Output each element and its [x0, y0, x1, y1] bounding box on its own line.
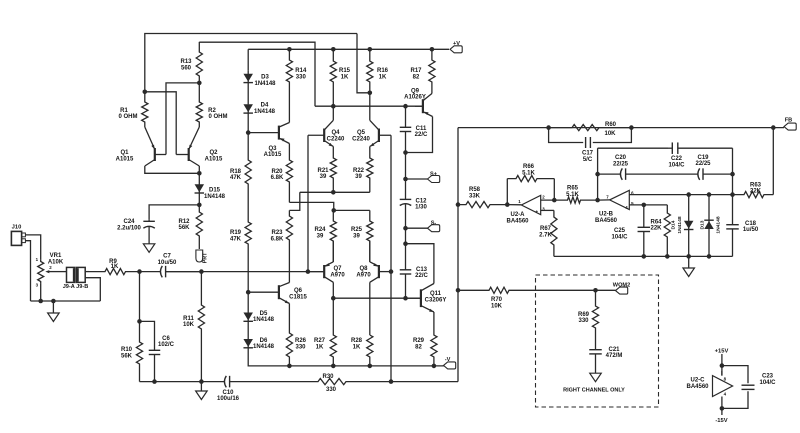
svg-text:C18: C18 [745, 221, 757, 227]
svg-text:C25: C25 [614, 228, 626, 234]
svg-text:R13: R13 [180, 59, 192, 65]
svg-text:A970: A970 [356, 272, 371, 278]
connector J10 [11, 231, 21, 245]
resistor R60 10K [549, 125, 632, 131]
node Q7 base input [306, 269, 311, 274]
svg-text:330: 330 [578, 318, 589, 324]
svg-text:D13: D13 [700, 220, 706, 229]
svg-text:WOM2: WOM2 [613, 283, 630, 289]
svg-text:U2-A: U2-A [510, 212, 525, 218]
connector WOM2 flag [616, 287, 628, 294]
svg-text:33K: 33K [469, 193, 481, 199]
wire U2-B inverting line [629, 194, 732, 196]
resistor R28 1K [367, 335, 373, 366]
svg-text:8: 8 [724, 377, 727, 382]
svg-text:C13: C13 [416, 267, 428, 273]
wire +V rail [248, 48, 449, 50]
svg-text:Q5: Q5 [357, 130, 366, 136]
svg-text:R15: R15 [339, 68, 351, 74]
svg-text:R24: R24 [314, 227, 326, 233]
svg-text:A970: A970 [330, 272, 345, 278]
svg-text:A1015: A1015 [205, 157, 223, 163]
svg-text:C21: C21 [608, 347, 620, 353]
svg-text:39: 39 [317, 234, 324, 240]
svg-text:6.8K: 6.8K [271, 175, 284, 181]
wire VR1 bottom [40, 284, 42, 301]
svg-text:R14: R14 [295, 68, 307, 74]
node +V rail [331, 47, 336, 52]
node R24-R25 [331, 208, 336, 213]
svg-text:S+: S+ [430, 171, 438, 177]
capacitor C13 22/C [405, 244, 407, 270]
potentiometer VR1 A10K [38, 259, 44, 283]
svg-text:10K: 10K [604, 131, 616, 137]
svg-text:22/25: 22/25 [613, 161, 629, 167]
node C25 top [642, 203, 647, 208]
node D13 top [707, 192, 712, 197]
wire [247, 49, 249, 70]
svg-text:+: + [535, 209, 538, 214]
diode D15 1N4148 [198, 173, 200, 205]
wire R66 left leg [506, 179, 508, 205]
svg-text:J10: J10 [12, 224, 22, 230]
svg-text:R69: R69 [578, 312, 590, 318]
node +V rail [430, 47, 435, 52]
svg-text:Q6: Q6 [294, 288, 303, 294]
svg-text:-15V: -15V [715, 418, 727, 424]
node ground [199, 379, 204, 384]
wire Q1 base [166, 83, 199, 155]
node -V rail [287, 364, 292, 369]
node C11 bottom [403, 150, 408, 155]
svg-text:C23: C23 [762, 374, 774, 380]
svg-text:47K: 47K [230, 175, 242, 181]
resistor R67 2.7K [551, 210, 557, 256]
svg-text:R67: R67 [540, 226, 552, 232]
svg-text:R30: R30 [322, 374, 334, 380]
svg-text:1N4148: 1N4148 [253, 317, 275, 323]
capacitor C21 472/M [595, 348, 597, 350]
wire Q5 base to Q8 base to feedback [390, 135, 392, 381]
node feedback [389, 379, 394, 384]
svg-text:R16: R16 [377, 68, 389, 74]
node C6 bottom [152, 379, 157, 384]
svg-text:A1015: A1015 [116, 157, 134, 163]
diode D6 1N4148 [247, 331, 249, 358]
transistor Q6 C1815 [278, 285, 280, 299]
svg-text:10u/50: 10u/50 [158, 260, 177, 266]
node C20 line [595, 172, 600, 177]
svg-text:R25: R25 [351, 227, 363, 233]
connector S- flag [428, 225, 440, 232]
node -V rail [331, 364, 336, 369]
svg-text:22K: 22K [750, 189, 762, 195]
wire to -V rail [248, 358, 289, 366]
svg-text:1: 1 [518, 199, 521, 204]
capacitor C6 102/C [154, 349, 156, 350]
resistor R2 0 OHM [196, 83, 202, 127]
resistor R63 22K [733, 192, 774, 198]
svg-text:R10: R10 [121, 347, 133, 353]
wire lower emitter resistors join [334, 209, 370, 211]
diode D14 1N4148 [688, 195, 690, 257]
capacitor C23 104/C [742, 384, 755, 386]
svg-text:R1: R1 [120, 108, 128, 114]
svg-text:C3206Y: C3206Y [425, 298, 447, 304]
svg-text:C11: C11 [416, 126, 427, 132]
node C19 right [730, 172, 735, 177]
svg-text:D14: D14 [671, 220, 677, 229]
wire J9 shield loop [85, 278, 100, 301]
node D14 top [686, 192, 691, 197]
svg-text:R66: R66 [523, 164, 535, 170]
svg-text:C2240: C2240 [327, 136, 345, 142]
node FB [771, 125, 776, 130]
resistor R25 39 [367, 210, 373, 262]
node +V rail [287, 47, 292, 52]
wire net Q1-emitter rail to Q5 collector [145, 34, 357, 92]
capacitor C24 2.2u/100 [148, 220, 150, 222]
svg-text:C24: C24 [123, 219, 135, 225]
ground below J9 [48, 313, 60, 322]
node R15-Q4 collector VAS line [331, 104, 336, 109]
wire analog ground rail [554, 255, 733, 257]
node to R70 [456, 288, 461, 293]
svg-text:J9-A J9-B: J9-A J9-B [63, 284, 89, 290]
resistor R18 47K [245, 133, 251, 203]
connector -V flag [444, 362, 456, 369]
svg-text:R19: R19 [230, 230, 242, 236]
svg-text:82: 82 [415, 345, 422, 351]
svg-text:1N4148: 1N4148 [254, 81, 276, 87]
svg-text:BA4560: BA4560 [595, 218, 618, 224]
wire to S- [406, 227, 428, 229]
transistor Q3 A1015 [278, 126, 280, 140]
wire Q8 collector to R28 [369, 282, 371, 335]
svg-text:560: 560 [181, 66, 192, 72]
svg-text:+15V: +15V [715, 349, 729, 355]
svg-text:A1026Y: A1026Y [404, 95, 426, 101]
wire Q4 base to Q7 base [307, 135, 309, 271]
node R13 bottom [197, 81, 202, 86]
transistor Q4 C2240 [323, 129, 325, 143]
node ground rail [686, 254, 691, 259]
svg-text:R64: R64 [650, 219, 662, 225]
wire R24 to Q7 emitter [332, 241, 334, 262]
wire [357, 34, 370, 93]
resistor R26 330 [286, 304, 292, 366]
svg-text:R60: R60 [605, 122, 617, 128]
svg-text:R63: R63 [750, 182, 762, 188]
op-amp U2-C BA4560 [713, 376, 733, 397]
svg-text:1u/50: 1u/50 [743, 227, 759, 233]
resistor R70 10K [458, 287, 616, 293]
node to R58 [456, 202, 461, 207]
svg-text:R11: R11 [183, 316, 194, 322]
connector PRT [196, 250, 203, 262]
svg-text:22/C: 22/C [415, 273, 428, 279]
node R11 top [199, 269, 204, 274]
transistor Q1 A1015 [154, 148, 156, 161]
svg-text:1N4148: 1N4148 [716, 216, 722, 233]
label D14 1N4148 rotated [671, 220, 677, 229]
wire [405, 228, 407, 244]
svg-text:1N4148: 1N4148 [677, 216, 683, 233]
svg-text:R58: R58 [469, 187, 481, 193]
svg-text:D3: D3 [261, 75, 269, 81]
svg-text:330: 330 [326, 387, 337, 393]
node R21-R22 [331, 190, 336, 195]
node U2-B output [595, 198, 600, 203]
node R9-C7 [137, 269, 142, 274]
svg-text:47K: 47K [230, 237, 242, 243]
node ground rail [642, 254, 647, 259]
resistor R29 82 [431, 312, 437, 366]
resistor R17 82 [429, 49, 435, 93]
diode D13 1N4148 [708, 195, 710, 257]
svg-text:10K: 10K [183, 322, 195, 328]
wire U2-B output column [597, 148, 599, 200]
node Q7 collector [331, 296, 336, 301]
wire upper emitter node to R23 [289, 192, 299, 210]
svg-text:10K: 10K [491, 303, 503, 309]
svg-text:104/C: 104/C [759, 380, 776, 386]
resistor R10 56K [136, 321, 142, 381]
resistor R66 5.1K [507, 176, 554, 182]
resistor R69 330 [592, 290, 598, 347]
svg-text:C17: C17 [582, 151, 594, 157]
capacitor C20 22/25 [619, 173, 621, 175]
connector FB flag [784, 123, 796, 130]
node -V rail [432, 364, 437, 369]
svg-text:C20: C20 [615, 155, 627, 161]
node to Q6 base [246, 290, 251, 295]
wire to S+ [406, 178, 428, 180]
ground below R11 [196, 391, 208, 400]
wire upper emitter resistors join [300, 191, 370, 193]
node VR1 ground [38, 299, 43, 304]
svg-text:Q7: Q7 [333, 266, 342, 272]
node -15V [720, 406, 725, 411]
svg-text:R20: R20 [271, 169, 283, 175]
node R63 left [730, 192, 735, 197]
dashed box RIGHT CHANNEL ONLY [536, 275, 659, 407]
svg-text:39: 39 [320, 174, 327, 180]
connector J9-B [77, 267, 86, 282]
svg-text:472/M: 472/M [606, 353, 623, 359]
wire Q1/Q2 collector join [145, 166, 200, 173]
wire FB line [458, 127, 784, 129]
wire [200, 382, 202, 391]
wire [139, 272, 141, 322]
svg-text:39: 39 [353, 234, 360, 240]
capacitor C22 104/C [668, 147, 672, 149]
resistor R12 56K [196, 205, 202, 249]
wire to C24 [149, 205, 199, 220]
diode D5 1N4148 [247, 292, 249, 331]
node R60 right [629, 125, 634, 130]
node C13 bottom Q11 base [403, 296, 408, 301]
svg-text:1K: 1K [353, 345, 361, 351]
transistor Q8 A970 [378, 265, 380, 278]
capacitor C12 1/30 [405, 179, 407, 199]
node D15 cathode [197, 203, 202, 208]
resistor R11 10K [198, 272, 204, 382]
resistor R24 39 [330, 210, 336, 262]
svg-text:Q8: Q8 [359, 266, 368, 272]
wire VAS base line [315, 105, 423, 107]
svg-text:Q11: Q11 [430, 291, 442, 297]
svg-text:PRT: PRT [203, 252, 209, 263]
svg-text:C2240: C2240 [352, 136, 370, 142]
resistor R22 39 [367, 147, 373, 193]
label D13 1N4148 rotated [700, 220, 706, 229]
op-amp U2-A BA4560 [521, 195, 540, 214]
connector S+ flag [428, 176, 440, 183]
wire -15V [721, 397, 723, 416]
svg-text:1K: 1K [316, 345, 324, 351]
svg-text:D15: D15 [209, 188, 221, 194]
svg-text:R12: R12 [178, 219, 190, 225]
svg-text:1N4148: 1N4148 [254, 109, 276, 115]
svg-text:0 OHM: 0 OHM [118, 114, 137, 120]
capacitor C7 10u/50 [140, 271, 162, 273]
transistor Q2 A1015 [188, 148, 190, 161]
wire +15V [721, 354, 723, 376]
svg-text:5/C: 5/C [583, 157, 593, 163]
svg-text:5.1K: 5.1K [566, 192, 579, 198]
resistor R9 1K [89, 269, 140, 275]
svg-text:1K: 1K [379, 75, 387, 81]
ground below C24 [143, 244, 155, 253]
svg-text:C6: C6 [162, 336, 170, 342]
wire R63 to FB line [772, 128, 774, 195]
svg-text:3: 3 [36, 282, 39, 287]
node C13 top [403, 241, 408, 246]
diode D3 1N4148 [247, 70, 249, 104]
svg-text:D5: D5 [260, 311, 268, 317]
svg-text:C19: C19 [697, 155, 709, 161]
wire [369, 93, 371, 121]
wire U2-A pin3 [541, 209, 554, 211]
svg-text:S-: S- [431, 221, 437, 227]
svg-text:1: 1 [36, 257, 39, 262]
svg-text:39: 39 [355, 174, 362, 180]
svg-text:7: 7 [606, 194, 609, 199]
resistor R58 33K [458, 202, 507, 208]
resistor R16 1K [367, 49, 373, 93]
svg-text:C1815: C1815 [289, 295, 307, 301]
svg-text:C12: C12 [415, 198, 427, 204]
svg-text:1N4148: 1N4148 [204, 194, 226, 200]
wire R20 to lower emitter node [289, 202, 333, 210]
svg-text:2.7K: 2.7K [539, 232, 552, 238]
connector +V flag [450, 46, 462, 53]
svg-text:2.2u/100: 2.2u/100 [117, 226, 141, 232]
wire [405, 153, 407, 180]
svg-text:RIGHT CHANNEL ONLY: RIGHT CHANNEL ONLY [563, 387, 625, 393]
svg-text:2: 2 [542, 195, 545, 200]
connector J9-A [67, 267, 75, 282]
wire top loop left [598, 147, 668, 149]
op-amp U2-B BA4560 [610, 190, 630, 209]
wire top loop right [700, 147, 733, 149]
svg-text:1/30: 1/30 [415, 205, 427, 211]
node R16-Q5 collector [368, 91, 373, 96]
ground below diode network [683, 268, 695, 277]
wire VAS output line [333, 297, 420, 299]
node R69 top [593, 288, 598, 293]
svg-text:0 OHM: 0 OHM [208, 114, 227, 120]
transistor Q7 A970 [323, 265, 325, 278]
diode D4 1N4148 [247, 104, 249, 132]
svg-text:2: 2 [49, 265, 52, 270]
wire right column [732, 148, 734, 194]
svg-text:FB: FB [785, 117, 792, 123]
resistor R13 560 [196, 42, 202, 83]
wire R66 right leg [553, 179, 555, 201]
capacitor C19 22/25 [672, 173, 698, 175]
svg-text:C22: C22 [671, 156, 683, 162]
node R60 left [546, 125, 551, 130]
svg-text:U2-C: U2-C [690, 378, 705, 384]
transistor Q9 A1026Y [422, 99, 424, 113]
svg-text:100u/16: 100u/16 [217, 396, 240, 402]
resistor R65 5.1K [567, 197, 598, 203]
resistor R1 0 OHM [142, 92, 148, 127]
wire U2-B pin5 line [629, 204, 667, 206]
svg-text:22/25: 22/25 [695, 161, 711, 167]
svg-text:R70: R70 [491, 297, 503, 303]
svg-text:+V: +V [453, 41, 460, 47]
transistor Q5 C2240 [378, 129, 380, 143]
wire R13 to VAS line [199, 42, 315, 106]
node +15V [720, 363, 725, 368]
wire C23 loop [722, 366, 748, 384]
svg-text:R18: R18 [230, 169, 242, 175]
wire to C6 [140, 321, 155, 349]
wire C20-C19 line [598, 173, 619, 175]
wire Q7 collector [332, 282, 334, 298]
svg-text:6.8K: 6.8K [271, 237, 284, 243]
svg-text:R21: R21 [317, 168, 329, 174]
node -V rail [368, 364, 373, 369]
resistor R30 330 [231, 379, 458, 385]
svg-text:104/C: 104/C [611, 235, 628, 241]
svg-text:22/C: 22/C [415, 132, 428, 138]
svg-text:Q2: Q2 [209, 150, 218, 156]
wire [52, 301, 54, 313]
svg-text:R65: R65 [567, 186, 579, 192]
svg-text:C7: C7 [163, 254, 171, 260]
wire U2-A inverting input [541, 199, 567, 201]
svg-text:56K: 56K [121, 353, 133, 359]
svg-text:56K: 56K [178, 225, 190, 231]
node R10-C6 [137, 319, 142, 324]
node C11 top [403, 104, 408, 109]
node D4 to Q3 base [246, 130, 251, 135]
node Q1-Q2 collectors [197, 171, 202, 176]
svg-text:104/C: 104/C [668, 162, 685, 168]
svg-text:22K: 22K [650, 226, 662, 232]
wire J10 pin2 to ground rail [25, 241, 30, 301]
wire [688, 256, 690, 267]
resistor R21 39 [330, 147, 336, 193]
svg-text:Q1: Q1 [120, 150, 129, 156]
resistor R64 22K [664, 205, 670, 257]
svg-text:82: 82 [413, 75, 420, 81]
svg-text:1N4148: 1N4148 [253, 344, 275, 350]
